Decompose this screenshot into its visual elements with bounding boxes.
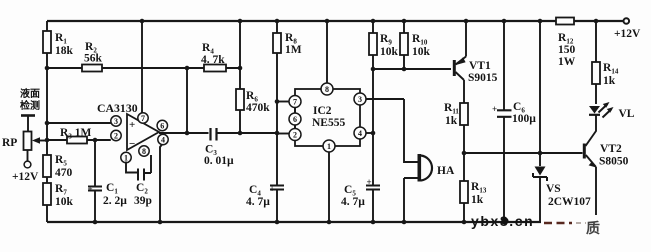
resistor R10 10k [400,33,431,58]
svg-text:10k: 10k [412,46,431,58]
wire inverting input line y=140 [46,139,111,141]
wire R11 to node [463,125,465,153]
svg-text:8: 8 [325,85,329,94]
svg-text:+: + [270,184,275,194]
capacitor C3 0.01u [204,128,234,167]
svg-text:+: + [492,104,497,114]
svg-text:+: + [88,184,93,194]
resistor R3 1M [60,127,91,144]
svg-text:4. 7µ: 4. 7µ [246,196,270,208]
wire op-amp pin4 to ground [160,145,162,223]
resistor R7 10k [43,183,74,208]
svg-text:1M: 1M [285,44,302,56]
wire top +12V rail [47,20,623,22]
op-amp pin 2 [111,130,121,140]
capacitor C4 4.7u [341,177,380,208]
555 pin 2 [277,129,301,141]
wire non-inverting input line y=123 [47,122,111,124]
wire pin1 and pin8 to ground bus [126,162,138,173]
svg-text:R5: R5 [55,154,67,168]
wire VT2 base line y=153 [464,152,583,154]
svg-text:R10: R10 [412,33,428,47]
svg-text:6: 6 [160,122,164,131]
op-amp pin 4 [158,134,168,144]
svg-text:2. 2µ: 2. 2µ [103,195,127,207]
probe electrode [21,116,35,132]
potentiometer RP [2,132,47,151]
svg-text:0. 01µ: 0. 01µ [204,155,234,167]
buzzer HA [418,154,455,182]
svg-text:10k: 10k [380,46,399,58]
svg-text:IC2: IC2 [313,105,332,117]
+12V supply terminal [614,18,641,40]
wire C6 column x=504 [503,21,505,222]
resistor R12 150 1W [556,18,576,69]
op-amp pin 7 [138,113,148,123]
svg-text:2: 2 [293,131,297,140]
svg-text:液面: 液面 [20,87,40,100]
svg-text:C2: C2 [136,182,148,196]
svg-text:R11: R11 [444,102,459,116]
capacitor C6 100u [492,101,536,125]
svg-text:VS: VS [546,183,561,195]
op-amp U1 CA3130 [97,101,159,150]
svg-text:S8050: S8050 [599,156,629,168]
wire VT1 collector to R11 [463,80,465,103]
wire R9 / pin4 column x=373 [372,21,374,222]
svg-text:+: + [367,177,372,187]
watermark red glyph [586,220,600,237]
svg-text:R14: R14 [603,62,619,76]
resistor R8 1M [273,32,302,56]
svg-text:1: 1 [124,154,128,163]
svg-text:1k: 1k [603,75,616,87]
op-amp pin 6 [157,120,167,130]
resistor R2 56k [82,41,103,72]
junction dots mid nodes [45,66,543,156]
wire R13 to ground [463,203,465,222]
transistor VT1 S9015 [453,57,498,85]
555 pin 7 [277,96,301,108]
svg-text:7: 7 [141,114,145,123]
op-amp pin 8 [139,146,149,156]
svg-text:VT1: VT1 [469,60,491,72]
svg-text:18k: 18k [55,45,74,57]
svg-text:R7: R7 [55,183,67,197]
svg-text:4: 4 [161,136,165,145]
wire R10 column x=404 [403,21,405,69]
svg-text:R1: R1 [55,32,67,46]
svg-text:+12V: +12V [12,171,39,183]
resistor R13 1k [460,181,487,206]
svg-text:3: 3 [358,95,362,104]
+12V terminal under RP [12,150,39,183]
svg-text:150: 150 [558,44,576,56]
svg-text:质: 质 [586,220,600,237]
wire RP node to C1 [94,140,96,186]
svg-text:VL: VL [619,108,635,120]
wire R14 column x=596 [595,21,597,104]
svg-text:10k: 10k [55,196,74,208]
svg-text:2CW107: 2CW107 [548,196,591,208]
svg-text:1: 1 [327,142,331,151]
555 pin 1 [323,140,335,222]
svg-text:100µ: 100µ [512,113,536,125]
svg-text:3: 3 [114,117,118,126]
svg-text:39p: 39p [134,195,152,207]
watermark gbx8.cn [471,213,534,229]
wire feedback line y=68 [47,67,240,69]
svg-text:−: − [129,138,135,150]
liquid probe label [20,87,40,112]
LED VL [589,102,635,120]
svg-text:1W: 1W [558,56,576,68]
op-amp pin 1 [121,152,131,162]
svg-text:7: 7 [293,98,297,107]
svg-text:NE555: NE555 [312,117,345,129]
wire LED to VT2 collector [586,114,597,146]
junction dots top rail [140,19,599,24]
wire bottom ground rail [47,221,541,223]
555 pin 3 [354,93,404,105]
svg-text:RP: RP [2,137,17,149]
capacitor C2 39p [134,155,152,207]
svg-text:R13: R13 [471,181,487,195]
wire node to R13 [463,153,465,181]
svg-text:S9015: S9015 [468,72,498,84]
555 pin 8 [321,21,333,95]
resistor R4 4.7k [201,42,226,72]
svg-text:R3 1M: R3 1M [60,127,91,141]
resistor R11 1k [444,102,468,127]
junction dots bottom rail [93,220,507,225]
svg-text:1k: 1k [471,194,484,206]
wire 555 trigger column x=277 [276,21,278,222]
resistor R1 18k [43,31,74,57]
wire VT1 base line y=69 [373,68,451,70]
resistor R14 1k [592,62,619,87]
svg-text:R9: R9 [380,33,392,47]
555 pin 6 [289,108,301,129]
svg-text:8: 8 [142,147,146,156]
wire R6 pull-up column x=240 [239,21,241,133]
IC2 NE555 body [295,89,360,146]
op-amp pin 3 [111,116,121,126]
svg-text:4: 4 [358,129,362,138]
svg-text:C1: C1 [106,182,118,196]
capacitor C1 2.2u [88,182,128,222]
svg-text:2: 2 [114,132,118,141]
wire VT2 emitter down [595,167,597,215]
wire VT1 emitter to rail [465,21,467,57]
svg-text:1k: 1k [445,115,458,127]
resistor R9 10k [369,33,399,58]
capacitor C5 4.7u [246,184,284,208]
svg-text:+12V: +12V [614,28,641,40]
wire 555 out to HA column x=404 [404,99,418,222]
wire feedback drop x=187 [186,68,188,133]
svg-text:VT2: VT2 [600,143,622,155]
svg-text:56k: 56k [84,53,103,65]
svg-text:4. 7µ: 4. 7µ [341,196,365,208]
555 pin 4 [354,127,373,139]
svg-text:HA: HA [437,165,455,177]
svg-text:4. 7k: 4. 7k [201,54,225,66]
svg-text:470k: 470k [246,102,270,114]
wire zener column x=540 [539,21,541,222]
transistor VT2 S8050 [583,143,629,168]
svg-text:检测: 检测 [20,99,40,112]
svg-text:CA3130: CA3130 [97,101,138,115]
svg-text:6: 6 [293,115,297,124]
wire op-amp output line [159,132,277,134]
svg-text:+: + [129,119,135,131]
zener VS 2CW107 [533,167,591,209]
watermark red dashes [544,222,586,225]
resistor R6 470k [236,89,270,114]
resistor R5 470 [43,154,73,179]
wire op-amp V+ pin7 to rail [141,21,143,113]
svg-text:470: 470 [55,167,73,179]
wire left column x=47 [46,21,48,222]
